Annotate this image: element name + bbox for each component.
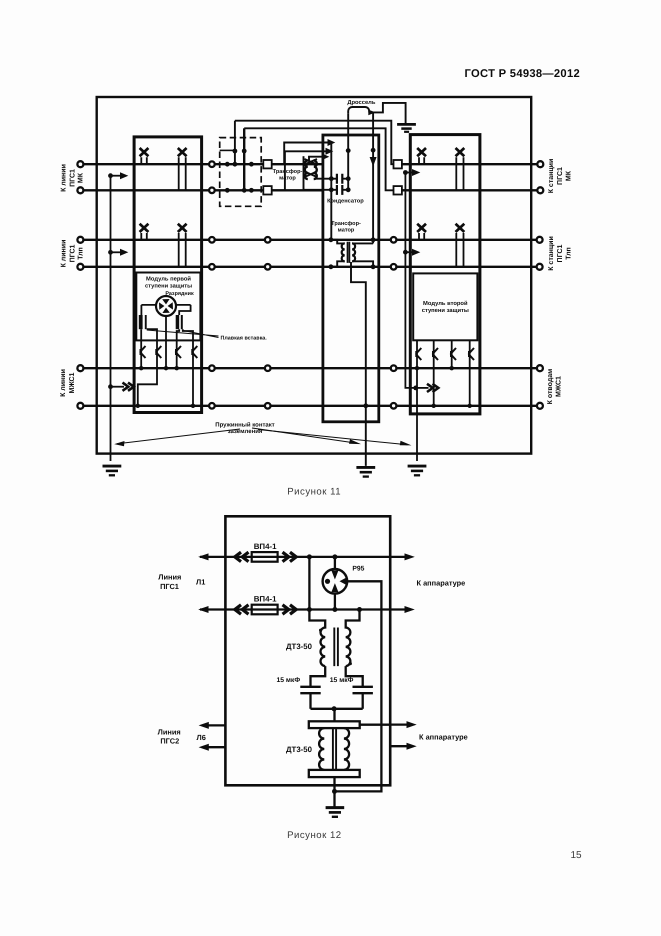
svg-text:ВП4-1: ВП4-1	[254, 542, 277, 551]
internal bus v2 from choke	[347, 113, 349, 190]
node terminals x394 right module inputs	[391, 160, 402, 409]
capacitor row A wire	[314, 178, 348, 180]
arrester Р95	[323, 569, 348, 594]
right exits to apparatus	[390, 725, 408, 747]
branch arrow pair3 double chevron	[108, 384, 113, 389]
ground right	[408, 465, 427, 468]
ground feed riser x405.4	[405, 173, 415, 388]
lower transformer core lines	[333, 728, 336, 770]
branch arrow pair2	[108, 250, 113, 255]
transformer ДТ3-50 upper, right winding	[346, 610, 360, 667]
fuse link F2	[179, 305, 190, 315]
ground left	[103, 465, 122, 468]
disconnector X1a pair1 wire a	[141, 157, 147, 164]
grounding riser x110.5 with branch arrows	[110, 176, 112, 461]
svg-text:Конденсатор: Конденсатор	[327, 198, 364, 204]
lower transformer left winding	[319, 728, 324, 770]
svg-text:Линия: Линия	[158, 573, 181, 582]
equipment box fig12	[225, 516, 390, 785]
svg-text:ПГС1: ПГС1	[69, 169, 76, 187]
label К линии ПГС1 МК	[60, 159, 572, 405]
svg-text:Л6: Л6	[197, 733, 206, 742]
drop wire v176	[177, 329, 180, 368]
arrester Р95 stem upper	[334, 557, 336, 569]
arrester (gas discharge tube)	[156, 296, 176, 316]
left exits Л6	[208, 725, 225, 747]
svg-text:15: 15	[570, 850, 582, 861]
disconnector X1b pair1 wire b legs	[179, 157, 186, 190]
disconnector X2b right pair2 legs	[456, 233, 463, 267]
feed arrow pair3 double chevron	[413, 386, 418, 391]
loop wire 2 with arrow	[272, 151, 327, 190]
bus line A	[235, 121, 394, 165]
transformer ДТ3-50 upper, left winding	[309, 557, 325, 666]
left protection module box	[134, 137, 202, 413]
polarity dots	[319, 629, 322, 632]
wire 1b line ПГС1 МК	[80, 189, 540, 191]
fuse link F1	[140, 305, 142, 315]
svg-text:15 мкФ: 15 мкФ	[276, 677, 300, 684]
left terminals	[77, 161, 83, 409]
second stage module white box	[413, 273, 477, 340]
junction dots fig12	[307, 554, 362, 794]
stub at y150.4	[220, 149, 235, 151]
svg-text:ПГС1: ПГС1	[69, 244, 76, 262]
label Линия ПГС1	[158, 573, 181, 591]
drop wire v193 to wire 3b	[183, 329, 193, 406]
outer enclosure rectangle	[97, 97, 532, 454]
disconnector X2b pair2 wire b legs	[179, 233, 186, 267]
connector chevrons left of fuse 1	[235, 552, 249, 561]
svg-text:Пружинный контакт: Пружинный контакт	[215, 421, 274, 428]
junction dots center area	[329, 148, 376, 408]
svg-text:К станции: К станции	[548, 236, 555, 271]
leader to left ground	[117, 429, 240, 444]
wire 2a line ПГС1 Тлп	[80, 239, 539, 241]
svg-text:ДТ3-50: ДТ3-50	[286, 642, 313, 651]
svg-text:Трансфор-: Трансфор-	[273, 168, 303, 175]
first stage module white box	[136, 273, 200, 341]
ground center	[356, 466, 375, 469]
label Линия ПГС2	[158, 727, 181, 745]
stub from terminals to right module edge	[402, 164, 410, 190]
fuse ВП4-1 lower	[252, 605, 278, 615]
wire L1b	[200, 608, 410, 610]
wire 2b line ПГС1 Тлп	[80, 266, 539, 268]
svg-text:ПГС1: ПГС1	[557, 167, 564, 185]
svg-text:К линии: К линии	[61, 164, 68, 192]
ground under choke	[397, 123, 416, 126]
svg-text:МК: МК	[78, 172, 85, 183]
feed arrow pair2	[403, 250, 408, 255]
leader lines to Плавкая вставка	[147, 330, 219, 338]
transformer T1 label	[273, 168, 303, 182]
loop wire 1 from terminal to module	[272, 143, 329, 165]
svg-text:ПГС1: ПГС1	[160, 582, 179, 591]
svg-text:К аппаратуре: К аппаратуре	[419, 733, 468, 742]
svg-text:Рисунок 12: Рисунок 12	[287, 830, 342, 841]
left arrow L1a	[198, 553, 208, 560]
wire B riser from wire1b	[243, 128, 245, 190]
svg-text:Рисунок 11: Рисунок 11	[287, 487, 341, 498]
junction dots in dashed box	[225, 149, 254, 193]
T1 primary return leg	[303, 156, 305, 190]
branch arrow pair1	[108, 173, 113, 178]
svg-text:матор: матор	[279, 176, 296, 182]
svg-text:ПГС2: ПГС2	[160, 737, 179, 746]
svg-text:ступени защиты: ступени защиты	[145, 284, 192, 290]
capacitor 15мкФ right	[346, 666, 363, 686]
internal bus v3 with down arrow	[372, 112, 374, 243]
center module box	[323, 135, 379, 422]
drop wire v141	[140, 329, 142, 368]
svg-text:Модуль первой: Модуль первой	[146, 276, 191, 283]
svg-text:К станции: К станции	[548, 159, 555, 194]
transformer T2 label	[331, 220, 361, 234]
svg-text:Трансфор-: Трансфор-	[331, 220, 361, 227]
bus line B	[244, 128, 393, 190]
leader to center ground	[252, 428, 357, 443]
svg-text:Л1: Л1	[196, 577, 205, 586]
svg-text:ГОСТ Р 54938—2012: ГОСТ Р 54938—2012	[465, 68, 581, 80]
disconnector X2a right pair2	[419, 233, 424, 240]
connector chevrons left of fuse 2	[235, 605, 249, 614]
wire 3a line МЖС1	[80, 367, 540, 369]
disconnector X1a right pair1	[419, 157, 424, 164]
svg-text:МЖС1: МЖС1	[69, 372, 76, 393]
right arrow L1a	[405, 553, 415, 560]
right terminals	[537, 161, 544, 409]
breaker contact arrows on drops	[140, 346, 146, 358]
internal bus v1	[330, 143, 332, 240]
feed arrow pair1	[403, 170, 408, 175]
transformer ДТ3-50 lower, top bar	[309, 721, 360, 728]
ground fig12	[326, 806, 345, 809]
svg-text:ступени защиты: ступени защиты	[422, 308, 469, 314]
svg-text:МЖС1: МЖС1	[555, 376, 562, 397]
svg-text:Линия: Линия	[158, 727, 181, 736]
arrester stem lower	[334, 594, 336, 610]
svg-text:Тлп: Тлп	[78, 247, 85, 260]
connector chevrons right of fuse 2	[283, 605, 297, 614]
svg-text:Модуль второй: Модуль второй	[423, 300, 468, 307]
svg-text:Тлп: Тлп	[565, 247, 572, 260]
T2 connection elbows	[331, 240, 345, 244]
connector chevrons right of fuse 1	[283, 552, 297, 561]
svg-text:К аппаратуре: К аппаратуре	[417, 579, 466, 588]
lower transformer right winding	[344, 728, 349, 770]
capacitor C2 plates	[337, 185, 342, 195]
fuse ВП4-1 upper	[252, 552, 278, 562]
svg-text:Р95: Р95	[352, 565, 364, 572]
capacitor C1 plates	[337, 174, 342, 184]
svg-text:Плавкая вставка.: Плавкая вставка.	[221, 336, 268, 342]
svg-text:ДТ3-50: ДТ3-50	[286, 745, 313, 754]
arrester stem to wire 3a	[165, 316, 167, 368]
transformer ДТ3-50 lower, bottom bar	[309, 770, 360, 777]
wire 3b line МЖС1	[80, 405, 540, 407]
capacitor bottom bus	[311, 708, 363, 710]
svg-text:матор: матор	[338, 228, 355, 234]
internal link bar to right edge	[360, 724, 391, 726]
junction dots right module	[415, 366, 472, 408]
arrester crossbar	[141, 304, 190, 306]
svg-text:К линии: К линии	[61, 240, 68, 268]
svg-text:15 мкФ: 15 мкФ	[330, 677, 354, 684]
transformer T2 windings	[342, 242, 355, 263]
wire L1a	[200, 556, 410, 558]
disconnector X1b right pair1 legs	[456, 157, 463, 190]
svg-text:К линии: К линии	[60, 369, 67, 397]
label Пружинный контакт заземления	[215, 421, 274, 435]
junction dots	[136, 366, 196, 408]
drop wires below second stage box	[416, 340, 418, 461]
transformer T1	[305, 159, 318, 179]
ground stem fig12	[333, 777, 335, 807]
dashed equipment box	[220, 138, 262, 207]
drop wire v157 with jog to wire 3b	[138, 329, 157, 406]
node terminals mid-left x212	[209, 161, 215, 408]
svg-text:Дроссель: Дроссель	[347, 100, 375, 106]
node terminals x268	[263, 160, 271, 409]
breaker contact arrows right module	[416, 348, 422, 360]
arrester side tap to ground bus	[335, 581, 382, 791]
svg-text:ПГС1: ПГС1	[557, 244, 564, 262]
right arrow L1b	[405, 606, 415, 613]
svg-text:МК: МК	[565, 170, 572, 181]
T2 ground stem	[351, 262, 366, 466]
right protection module box	[410, 135, 480, 414]
left arrow L1b	[198, 606, 208, 613]
wire A riser from wire1a	[234, 121, 236, 165]
leader to right ground	[258, 430, 408, 445]
capacitor 15мкФ left	[311, 666, 326, 686]
loop wire 3 with arrow	[309, 157, 323, 161]
svg-text:К отводам: К отводам	[547, 369, 554, 405]
transformer core lines	[334, 628, 338, 667]
capacitor row B wire	[304, 189, 349, 191]
disconnector X2a pair2 wire a	[141, 233, 147, 240]
wire 1a line ПГС1 МК	[80, 163, 540, 165]
svg-text:ВП4-1: ВП4-1	[254, 595, 277, 604]
stem to lower transformer	[333, 709, 335, 722]
